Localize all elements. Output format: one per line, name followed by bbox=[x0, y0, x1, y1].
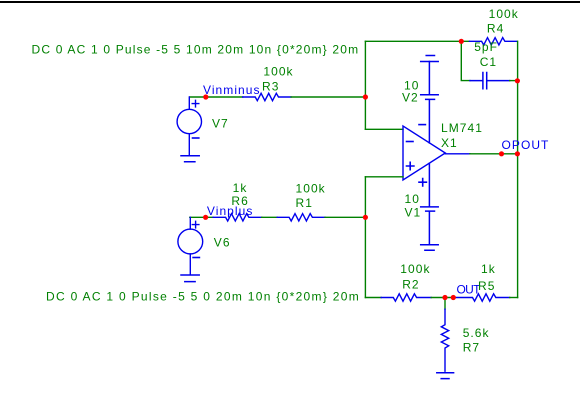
label R2 bbox=[402, 278, 419, 292]
V7 plus mark bbox=[192, 100, 199, 107]
node Vinminus label bbox=[203, 83, 261, 97]
svg-text:1k: 1k bbox=[481, 262, 496, 276]
svg-text:R2: R2 bbox=[402, 278, 419, 292]
svg-text:10: 10 bbox=[405, 192, 420, 206]
op-amp inverting input pin mark - bbox=[407, 141, 414, 143]
battery V2 bbox=[421, 62, 439, 143]
annotation text for V7: DC 0 AC 1 0 Pulse bbox=[32, 42, 360, 56]
wire op-amp output bbox=[445, 153, 470, 155]
value label 1k for R5 bbox=[481, 262, 496, 276]
value label 5pF for C1 bbox=[474, 40, 498, 54]
node OUT label dot bbox=[451, 295, 456, 300]
node Vinplus label bbox=[207, 204, 254, 218]
junction dot output/right rail bbox=[515, 151, 520, 156]
svg-text:V7: V7 bbox=[212, 117, 229, 131]
ground under R7 bbox=[437, 373, 454, 379]
svg-text:R4: R4 bbox=[487, 22, 504, 36]
wire C1 to right rail bbox=[510, 80, 518, 82]
value label 100k for R2 bbox=[400, 262, 430, 276]
value label 1k for R6 bbox=[233, 181, 248, 195]
label V7 bbox=[212, 117, 229, 131]
value label 10 for V1 bbox=[405, 192, 420, 206]
voltage source V7 circle bbox=[177, 109, 201, 133]
top border line bbox=[0, 1, 580, 3]
resistor R5 bbox=[454, 294, 510, 301]
node Vinplus junction dot bbox=[203, 215, 208, 220]
svg-text:5.6k: 5.6k bbox=[463, 326, 490, 340]
label LM741 bbox=[441, 121, 483, 135]
battery V1 bbox=[421, 163, 439, 245]
junction dot OUT (R7 tap) bbox=[442, 295, 447, 300]
junction dot R3/inverting rail bbox=[363, 94, 368, 99]
voltage source V7 bottom lead bbox=[188, 134, 190, 156]
svg-text:100k: 100k bbox=[489, 7, 519, 21]
svg-text:DC 0 AC 1 0 Pulse -5 5 0 20m 1: DC 0 AC 1 0 Pulse -5 5 0 20m 10n {0*20m}… bbox=[46, 290, 360, 304]
wire non-inverting vertical rail bbox=[364, 177, 366, 298]
resistor R7 (vertical) bbox=[441, 309, 448, 371]
voltage source V6 top lead bbox=[189, 217, 191, 229]
svg-text:100k: 100k bbox=[400, 262, 430, 276]
label V1 bbox=[405, 206, 422, 220]
op-amp U X1 triangle bbox=[403, 126, 445, 180]
label V2 bbox=[402, 91, 419, 105]
V7 minus mark bbox=[193, 137, 199, 139]
label R4 bbox=[487, 22, 504, 36]
node Vinminus junction dot bbox=[203, 94, 208, 99]
ground under V7 bbox=[181, 156, 199, 162]
label V6 bbox=[214, 236, 231, 250]
svg-text:R3: R3 bbox=[262, 80, 279, 94]
label R6 bbox=[231, 194, 248, 208]
voltage source V7 top lead bbox=[188, 97, 190, 109]
wire R3 to inverting rail bbox=[291, 96, 365, 98]
label X1 bbox=[441, 136, 458, 150]
op-amp positive supply pin mark + bbox=[419, 179, 426, 186]
svg-text:Vinminus: Vinminus bbox=[203, 83, 261, 97]
value label 100k for R3 bbox=[263, 65, 293, 79]
wire top feedback horizontal bbox=[365, 40, 469, 42]
V6 plus mark bbox=[192, 221, 199, 228]
wire R1 to non-inverting rail bbox=[325, 216, 365, 218]
svg-text:R6: R6 bbox=[231, 194, 248, 208]
value label 100k for R4 bbox=[489, 7, 519, 21]
junction dot R1/non-inverting rail bbox=[363, 215, 368, 220]
svg-text:V2: V2 bbox=[402, 91, 419, 105]
resistor R2 bbox=[381, 294, 431, 301]
svg-text:R7: R7 bbox=[463, 340, 480, 354]
svg-text:C1: C1 bbox=[480, 55, 497, 69]
svg-text:LM741: LM741 bbox=[441, 121, 483, 135]
wire inverting vertical rail bbox=[364, 41, 366, 129]
junction dot feedback left bbox=[459, 39, 464, 44]
op-amp negative supply pin mark - bbox=[419, 124, 425, 126]
node OUT label bbox=[457, 283, 482, 297]
resistor R4 bbox=[470, 38, 517, 45]
svg-text:100k: 100k bbox=[296, 182, 326, 196]
wire V7 to Vinminus node bbox=[190, 96, 243, 98]
wire to op-amp inverting input bbox=[365, 128, 403, 130]
resistor R3 bbox=[243, 93, 291, 100]
op-amp non-inverting input pin mark + bbox=[407, 162, 414, 169]
label R5 bbox=[478, 279, 495, 293]
wire R2 to OUT node bbox=[431, 297, 454, 299]
battery V2 ground symbol (inverted, above) bbox=[421, 56, 439, 62]
svg-text:X1: X1 bbox=[441, 136, 458, 150]
wire R4 right corner down to C1 node bbox=[517, 41, 519, 80]
svg-text:V6: V6 bbox=[214, 236, 231, 250]
label R7 bbox=[463, 340, 480, 354]
ground under V1 bbox=[421, 245, 439, 251]
value label 5.6k for R7 bbox=[463, 326, 490, 340]
node OPOUT label dot bbox=[499, 151, 504, 156]
wire R5 to right rail corner bbox=[510, 297, 518, 299]
ground under V6 bbox=[181, 275, 199, 282]
junction dot C1 right bbox=[515, 78, 520, 83]
label C1 bbox=[480, 55, 497, 69]
svg-text:DC 0 AC 1 0 Pulse -5 5 10m 20m: DC 0 AC 1 0 Pulse -5 5 10m 20m 10n {0*20… bbox=[32, 42, 360, 56]
svg-text:R1: R1 bbox=[296, 196, 313, 210]
value label 10 for V2 bbox=[404, 79, 419, 93]
annotation text for V6: DC 0 AC 1 0 Pulse bbox=[46, 290, 360, 304]
label R3 bbox=[262, 80, 279, 94]
wire C1 branch left vertical bbox=[461, 41, 470, 80]
node OPOUT label bbox=[502, 138, 550, 152]
wire bottom to R2 bbox=[365, 297, 381, 299]
wire R6 to R1 bbox=[262, 216, 278, 218]
wire output to right rail bbox=[470, 153, 518, 155]
capacitor C1 bbox=[470, 73, 510, 89]
svg-text:R5: R5 bbox=[478, 279, 495, 293]
svg-text:V1: V1 bbox=[405, 206, 422, 220]
wire right rail vertical bbox=[517, 81, 519, 298]
svg-text:5pF: 5pF bbox=[474, 40, 498, 54]
value label 100k for R1 bbox=[296, 182, 326, 196]
resistor R1 bbox=[277, 214, 325, 221]
svg-text:100k: 100k bbox=[263, 65, 293, 79]
svg-text:OPOUT: OPOUT bbox=[502, 138, 550, 152]
V6 minus mark bbox=[193, 257, 199, 259]
voltage source V6 circle bbox=[178, 229, 203, 254]
wire to op-amp non-inverting input bbox=[365, 176, 403, 178]
wire V6 to Vinplus node bbox=[190, 216, 213, 218]
svg-text:1k: 1k bbox=[233, 181, 248, 195]
wire OUT node down to R7 bbox=[444, 298, 446, 310]
voltage source V6 bottom lead bbox=[189, 254, 191, 275]
resistor R6 bbox=[213, 214, 262, 221]
label R1 bbox=[296, 196, 313, 210]
